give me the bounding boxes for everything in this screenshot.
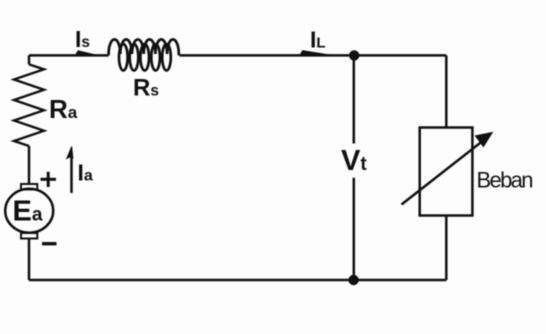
- wire Ea to bottom: [28, 239, 31, 281]
- svg-text:IL: IL: [310, 27, 326, 53]
- resistor Ra: [14, 64, 44, 146]
- wire top-left segment: [29, 54, 109, 57]
- wire Vt upper: [353, 55, 356, 143]
- current arrow IL: [299, 50, 332, 56]
- node junction bottom: [348, 275, 358, 285]
- svg-text:Is: Is: [75, 26, 90, 52]
- svg-text:Vt: Vt: [341, 145, 367, 177]
- wire top-right segment: [179, 54, 446, 57]
- wire bottom: [29, 279, 446, 282]
- minus sign: [42, 242, 57, 245]
- node junction top: [349, 50, 359, 60]
- load arrowhead: [475, 132, 494, 148]
- svg-text:Ia: Ia: [78, 159, 93, 185]
- current arrow Ia: [67, 147, 73, 194]
- wire Ra to Ea: [28, 146, 31, 184]
- svg-text:Ea: Ea: [13, 196, 43, 228]
- motor terminal top: [21, 184, 37, 190]
- wire right vertical lower: [445, 216, 448, 281]
- wire right vertical upper: [445, 55, 448, 127]
- source Ea circle: [5, 189, 53, 233]
- svg-text:Ra: Ra: [49, 94, 78, 124]
- wire Vt lower: [353, 178, 356, 280]
- load box Beban: [420, 128, 473, 216]
- current arrow Is: [74, 50, 97, 56]
- motor terminal bottom: [21, 233, 37, 239]
- inductor Rs: [109, 39, 179, 70]
- plus sign: [41, 172, 57, 187]
- wire left vertical upper: [28, 55, 31, 64]
- svg-text:Beban: Beban: [477, 168, 534, 193]
- svg-text:Rs: Rs: [133, 75, 159, 102]
- load arrow diagonal: [402, 142, 483, 205]
